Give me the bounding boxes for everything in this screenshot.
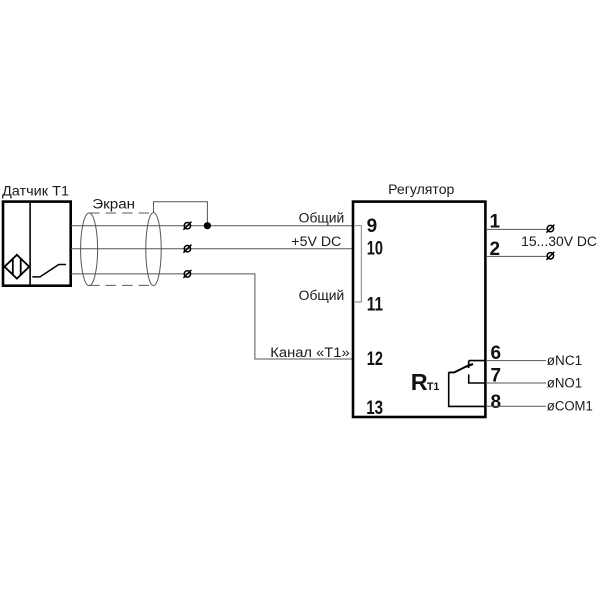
cable shield bottom dashed line <box>89 284 153 286</box>
svg-text:8: 8 <box>491 392 502 413</box>
internal link pin 9 to pin 11 <box>355 226 361 302</box>
wire: sensor to pin 9 (Общий) <box>71 225 353 227</box>
wire: pin 2 to supply terminal <box>486 255 547 257</box>
terminal ø on wire 10 <box>183 245 191 253</box>
svg-text:Канал «Т1»: Канал «Т1» <box>270 345 349 360</box>
svg-text:10: 10 <box>367 238 383 259</box>
wire: pin 1 to supply terminal <box>486 228 547 230</box>
terminal ø on wire 1 <box>546 225 554 233</box>
svg-text:R: R <box>411 369 428 395</box>
svg-text:2: 2 <box>490 239 501 260</box>
sensor body (Датчик Т1 box) <box>3 202 71 286</box>
svg-text:øNO1: øNO1 <box>547 376 582 391</box>
svg-text:Регулятор: Регулятор <box>388 182 454 197</box>
svg-text:15...30V DC: 15...30V DC <box>521 234 597 249</box>
svg-text:13: 13 <box>366 398 383 419</box>
relay moving contact arm <box>449 364 471 372</box>
junction dot on Общий wire <box>204 222 211 229</box>
wire: sensor to pin 10 (+5V DC) <box>71 248 353 250</box>
relay common (pin 8) <box>449 372 486 406</box>
diamond hatch line 1 <box>12 259 14 275</box>
wire: pin 6 to NC1 <box>486 360 546 362</box>
relay NC contact (pin 6) <box>469 361 486 368</box>
svg-text:12: 12 <box>367 349 383 370</box>
terminal ø on wire 9 <box>183 222 191 230</box>
svg-text:Экран: Экран <box>92 197 135 212</box>
sensor output characteristic curve <box>32 265 66 277</box>
cable shield ellipse right <box>146 213 161 286</box>
wire: sensor bottom signal wire <box>71 274 353 359</box>
wire: pin 7 to NO1 <box>486 382 546 384</box>
svg-text:Датчик Т1: Датчик Т1 <box>2 183 69 198</box>
relay NO contact (pin 7) <box>469 374 486 383</box>
svg-text:Общий: Общий <box>299 210 345 225</box>
sensor internal divider <box>29 203 31 285</box>
diamond hatch line 2 <box>20 259 22 275</box>
regulator U1 box <box>353 202 485 417</box>
svg-text:Т1: Т1 <box>427 381 440 393</box>
svg-text:øNC1: øNC1 <box>547 353 582 368</box>
svg-text:øCOM1: øCOM1 <box>547 399 593 414</box>
sensor element symbol (diamond) <box>5 255 30 279</box>
terminal ø on wire 2 <box>546 252 554 260</box>
terminal ø on bottom wire <box>183 270 191 278</box>
wire: pin 8 to COM1 <box>486 405 546 407</box>
cable shield top dashed line <box>89 212 153 214</box>
cable shield ellipse left <box>81 213 98 286</box>
wire: shield drain to common junction <box>154 202 208 226</box>
relay arm tip <box>466 364 473 367</box>
svg-text:9: 9 <box>367 216 378 237</box>
svg-text:+5V DC: +5V DC <box>291 234 341 249</box>
svg-text:11: 11 <box>367 295 384 316</box>
svg-text:Общий: Общий <box>299 288 345 303</box>
